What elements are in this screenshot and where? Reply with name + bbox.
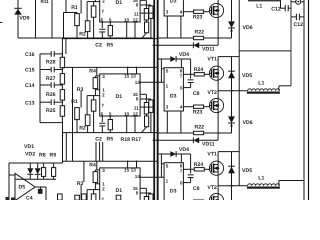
resistor box C <box>91 100 96 111</box>
wire: VD4 to D3 top pin 8 <box>180 154 182 163</box>
resistor below R8/R9 (clipped) <box>58 194 63 200</box>
svg-text:1: 1 <box>166 178 169 183</box>
svg-text:R22: R22 <box>195 29 205 35</box>
svg-text:R8: R8 <box>39 152 46 158</box>
svg-text:15: 15 <box>124 74 130 79</box>
diode VD6 <box>231 0 233 21</box>
resistor R28 <box>60 57 64 68</box>
svg-text:R26: R26 <box>46 92 56 98</box>
svg-text:13: 13 <box>131 168 137 173</box>
diode VD1 <box>29 163 31 168</box>
wire: pin16 to R18 <box>140 93 146 95</box>
wire: VT2 source down <box>217 113 219 134</box>
svg-text:C12: C12 <box>294 22 304 28</box>
wire vertical x=52 <box>51 0 53 38</box>
svg-text:6: 6 <box>180 86 183 91</box>
svg-text:7: 7 <box>101 197 104 200</box>
svg-text:C15: C15 <box>25 68 35 74</box>
resistor box C <box>91 194 96 205</box>
svg-text:D1: D1 <box>116 188 123 194</box>
wire: VD4 to C8 <box>190 59 192 79</box>
wire: R4 to pin 3 <box>94 76 96 78</box>
svg-text:D3: D3 <box>170 189 177 195</box>
svg-text:D3: D3 <box>170 94 177 100</box>
svg-text:VD6: VD6 <box>243 25 253 31</box>
diode VD4 (channel 2) <box>157 58 170 60</box>
svg-text:D1: D1 <box>116 0 123 6</box>
resistor R1 (box A) <box>75 14 80 26</box>
svg-text:VD9: VD9 <box>19 15 29 21</box>
wire: drain top horizontal <box>218 56 239 58</box>
wire: R3 drop <box>80 185 82 202</box>
inductor L1 <box>248 184 280 186</box>
resistor R27 <box>60 74 64 85</box>
wire: ch2 coil output step <box>278 86 280 91</box>
svg-text:R3: R3 <box>77 87 84 93</box>
wire: pin12 to bus <box>134 116 136 133</box>
wire: VT1 source / VT2 drain node <box>217 80 219 98</box>
svg-text:15: 15 <box>124 168 130 173</box>
transistor VT2 <box>209 98 223 112</box>
resistor R4 <box>93 78 98 89</box>
svg-text:R28: R28 <box>46 60 56 66</box>
wire: opamp output <box>35 186 46 188</box>
inductor L1 <box>248 89 280 91</box>
wire: x=99.6 drop <box>99 142 101 161</box>
svg-text:R22: R22 <box>195 124 205 130</box>
svg-text:R25: R25 <box>46 108 56 114</box>
diode VD4 (channel 3) <box>157 153 170 155</box>
wire: VT2 source down <box>217 208 219 229</box>
svg-text:C8: C8 <box>193 0 200 2</box>
svg-text:3: 3 <box>166 199 169 200</box>
resistor R18 <box>144 9 148 21</box>
wire: pin11 stub <box>140 12 153 14</box>
wire: ladder left bus x=40 <box>39 54 41 123</box>
svg-text:3: 3 <box>166 9 169 14</box>
resistor R18 <box>144 103 148 115</box>
svg-text:13: 13 <box>131 74 137 79</box>
svg-text:C2: C2 <box>95 43 102 49</box>
resistor R25 <box>60 106 64 117</box>
IC D1 box (channel 1) <box>100 0 140 22</box>
wire: x=102.7 drop <box>102 142 104 161</box>
wire: VT1 source / VT2 drain node <box>217 0 219 4</box>
svg-text:VD11: VD11 <box>202 47 215 53</box>
capacitor C8 <box>188 174 194 176</box>
wire: thick vertical bus line A x=152.6 <box>153 0 155 200</box>
wire: channel bus <box>62 38 156 40</box>
svg-text:D1: D1 <box>116 94 123 100</box>
svg-text:9: 9 <box>136 191 139 196</box>
svg-text:R9: R9 <box>50 152 57 158</box>
wire: ch3 coil output step <box>278 181 280 186</box>
IC D3 box (channel 3) <box>164 163 183 206</box>
corner blobs (clipped symbols) <box>6 197 10 200</box>
inductor core bar (clipped top) <box>248 0 280 1</box>
svg-text:VT1: VT1 <box>207 151 217 157</box>
svg-text:R24: R24 <box>194 162 204 168</box>
resistor box C <box>91 6 96 17</box>
wire vertical x=35.5 <box>35 0 37 38</box>
wire: pin3 to bus <box>166 206 168 228</box>
svg-text:6: 6 <box>101 17 104 22</box>
svg-text:7: 7 <box>180 73 183 78</box>
IC D1 box (channel 3) <box>100 168 140 210</box>
svg-text:C16: C16 <box>25 52 35 58</box>
svg-text:L1: L1 <box>258 80 264 86</box>
resistor R24 <box>183 168 194 170</box>
diode VD9 <box>17 0 19 38</box>
wire: pin4 to bus <box>180 16 182 38</box>
resistor R23 <box>183 201 193 203</box>
op-amp D5 <box>15 173 35 200</box>
capacitor C12 (upper) <box>280 0 282 8</box>
svg-text:C8: C8 <box>193 91 200 97</box>
svg-text:R4: R4 <box>89 163 96 169</box>
IC D1 box (channel 2) <box>100 74 140 116</box>
wire: top taps to control line <box>127 161 129 168</box>
wire: y=67.4 long horizontal (C15 node to bus) <box>62 66 156 68</box>
capacitor C16 <box>40 53 51 55</box>
wire: feedback box left <box>8 163 10 198</box>
wire: loop left vertical x=239.2 <box>238 0 240 186</box>
wire: pin12 to bus <box>134 210 136 227</box>
IC D3 box (channel 2) <box>164 68 183 111</box>
wire: bus to ladder chain top <box>61 38 63 57</box>
wire vertical x=66.3 y132.6-161.3 <box>65 133 67 162</box>
wire vertical x=72.5 y65.6-161.3 <box>72 67 74 161</box>
svg-text:VD5: VD5 <box>242 73 252 79</box>
capacitor C13 <box>40 101 51 103</box>
wire: ladder resistor chain x=62.4 <box>61 54 63 123</box>
svg-text:1: 1 <box>166 83 169 88</box>
svg-text:10: 10 <box>124 111 130 116</box>
resistor R22 <box>194 226 204 229</box>
svg-text:R23: R23 <box>193 110 203 116</box>
wire: horizontal bus y=38 (channel 1) <box>18 37 153 39</box>
svg-text:3: 3 <box>102 74 105 79</box>
wire: R22 bus line <box>157 227 194 229</box>
svg-text:C13: C13 <box>25 100 35 106</box>
wire: node to inductor <box>218 185 248 187</box>
wire: bus drop x=65.9 <box>65 38 67 54</box>
svg-text:VD1: VD1 <box>24 144 34 150</box>
svg-text:VT2: VT2 <box>207 0 217 1</box>
resistor R3 (channel 3) <box>82 194 87 200</box>
transistor VT2 <box>209 3 223 17</box>
capacitor C14 <box>40 84 51 86</box>
resistor below R18 <box>146 208 148 210</box>
wire vertical x=62.5 y122.6-163 <box>62 123 64 163</box>
diode VD5 <box>231 57 233 91</box>
wire: pin9 to R17 <box>140 98 151 100</box>
svg-text:R4: R4 <box>89 69 96 75</box>
wire: pin11 stub <box>140 106 153 108</box>
IC D3 box (channel 1) <box>164 0 183 16</box>
wire: VT1 source / VT2 drain node <box>217 175 219 193</box>
resistor R2 (box B) <box>85 21 90 32</box>
svg-text:R2: R2 <box>79 32 86 38</box>
wire: D1 pin14 to D3 pin1 <box>140 81 164 83</box>
wire: channel bus <box>62 132 156 134</box>
svg-text:2: 2 <box>102 187 105 192</box>
resistor R22 <box>194 36 204 39</box>
svg-text:R23: R23 <box>193 15 203 21</box>
diode VD11 <box>153 139 194 141</box>
wire: pin3 to bus <box>166 111 168 133</box>
resistor R23 <box>183 11 193 13</box>
wire: node to inductor <box>218 90 248 92</box>
wire: R4 bottom to pin2 line <box>94 0 96 2</box>
wire: pin3 to bus <box>166 16 168 38</box>
wire: VD4 node down left side <box>160 59 162 82</box>
svg-text:VD4: VD4 <box>179 52 189 58</box>
svg-text:VD11: VD11 <box>202 142 215 148</box>
wire: top taps to control line <box>127 67 129 74</box>
svg-text:11: 11 <box>134 12 139 17</box>
diode VD11 <box>153 44 194 46</box>
resistor R22 <box>194 131 204 134</box>
diode VD6 <box>231 186 233 212</box>
wire: tick at left edge y=22.4 <box>0 21 2 23</box>
wire: pin 2 lead <box>87 189 100 191</box>
svg-text:9: 9 <box>136 97 139 102</box>
resistor R5 <box>109 116 111 120</box>
svg-text:VD4: VD4 <box>179 147 189 153</box>
capacitor C12 (lower) <box>291 16 296 18</box>
wire: pin 2 lead <box>87 1 100 3</box>
wire: D1 pin14 to D3 pin1 <box>140 176 164 178</box>
wire: pin16 to R18 <box>140 187 146 189</box>
svg-text:VT1: VT1 <box>207 56 217 62</box>
wire: pin10 to bus <box>126 22 128 39</box>
wire: VD4 to C8 <box>190 154 192 174</box>
svg-text:11: 11 <box>134 106 139 111</box>
svg-text:5: 5 <box>166 164 169 169</box>
resistor R5 <box>109 22 111 26</box>
wire: pin16 to R18 <box>140 0 146 1</box>
svg-text:R1: R1 <box>71 99 78 105</box>
svg-text:R1: R1 <box>71 5 78 11</box>
svg-text:9: 9 <box>136 3 139 8</box>
wire: right rail x=304 <box>303 0 305 200</box>
svg-text:2: 2 <box>102 93 105 98</box>
resistor R17 <box>149 6 153 18</box>
resistor R2 (box B) <box>85 115 90 126</box>
capacitor C2 <box>101 210 103 216</box>
svg-text:C8: C8 <box>193 186 200 192</box>
wire: R3 drop <box>80 91 82 108</box>
svg-text:7: 7 <box>180 168 183 173</box>
svg-text:C14: C14 <box>25 83 35 89</box>
resistor below R18 <box>146 114 148 116</box>
wire: drain top horizontal <box>218 151 239 153</box>
resistor R4 <box>93 172 98 183</box>
resistor R17 <box>149 194 153 206</box>
svg-text:6: 6 <box>101 111 104 116</box>
wire: output rail x=291 (top) <box>290 0 292 86</box>
svg-text:L1: L1 <box>258 175 264 181</box>
wire: VT2 source down <box>217 18 219 39</box>
svg-text:VD2: VD2 <box>25 152 35 158</box>
svg-text:5: 5 <box>109 17 112 22</box>
wire: diagonal to bus <box>142 33 147 39</box>
transistor VT1 <box>209 66 223 80</box>
wire: pin3 net to control line <box>96 67 98 76</box>
transistor VT2 <box>209 193 223 207</box>
resistor R23 <box>183 106 193 108</box>
svg-text:5: 5 <box>109 111 112 116</box>
svg-text:R27: R27 <box>46 76 56 82</box>
svg-text:10: 10 <box>124 17 130 22</box>
svg-text:R11: R11 <box>41 0 50 4</box>
svg-text:12: 12 <box>133 111 139 116</box>
capacitor C4 <box>40 187 42 189</box>
wire: channel bus <box>62 226 156 228</box>
svg-text:R18 R17: R18 R17 <box>121 137 142 143</box>
wire: VD4 to D3 top pin 8 <box>180 59 182 68</box>
wire: VD4 node down left side <box>160 154 162 177</box>
wire: pin12 to bus <box>134 22 136 39</box>
wire: R3 drop <box>80 0 82 14</box>
diode VD6 <box>231 91 233 117</box>
resistor R5 <box>109 210 111 214</box>
svg-text:C12: C12 <box>271 7 281 13</box>
wire: pin9 to R17 <box>140 192 151 194</box>
svg-text:4: 4 <box>180 199 183 200</box>
wire: pin9 to R17 <box>140 4 151 6</box>
wire: diagonal to bus <box>142 127 147 133</box>
svg-text:3: 3 <box>166 104 169 109</box>
resistor R2 (box B) <box>85 209 90 220</box>
capacitor C2 <box>101 116 103 122</box>
svg-text:L1: L1 <box>256 4 262 10</box>
wire: R4 bottom to pin2 line <box>94 183 96 190</box>
svg-text:12: 12 <box>133 17 139 22</box>
capacitor C15 <box>40 69 51 71</box>
svg-text:VD6: VD6 <box>243 120 253 126</box>
resistor R17 <box>149 100 153 112</box>
transistor VT1 <box>209 161 223 175</box>
svg-text:6: 6 <box>180 181 183 186</box>
svg-text:14: 14 <box>135 80 141 85</box>
svg-text:C4: C4 <box>26 196 33 201</box>
resistor clipped x=77 <box>75 195 80 200</box>
wire: pin11 stub <box>140 200 153 202</box>
svg-text:D5: D5 <box>19 184 26 190</box>
wire: pin10 to bus <box>126 116 128 133</box>
wire: diode bottom rail y=179.3 <box>15 178 56 180</box>
wire: pin3 net to control line <box>96 161 98 170</box>
resistor R1 (box A) <box>75 202 80 214</box>
resistor R1 (box A) <box>75 108 80 120</box>
resistor R18 <box>144 197 148 209</box>
wire: R3 ch3 hang <box>83 161 85 182</box>
capacitor C8 <box>188 79 194 81</box>
svg-text:D3: D3 <box>170 0 177 5</box>
svg-text:2: 2 <box>102 0 105 4</box>
connector circle XS1 <box>296 0 301 4</box>
svg-text:4: 4 <box>180 104 183 109</box>
wire: thick vertical bus line B x=156.8 <box>157 0 159 200</box>
svg-text:14: 14 <box>135 174 141 179</box>
svg-text:VD5: VD5 <box>242 168 252 174</box>
wire: R22 bus line <box>157 132 194 134</box>
wire: diagonal to bus <box>142 221 147 227</box>
wire: x=96 drop <box>95 142 97 161</box>
diode VD5 <box>231 152 233 186</box>
svg-text:3: 3 <box>102 168 105 173</box>
svg-text:R3: R3 <box>77 181 84 187</box>
wire: control line y=161.3 (channel 3) <box>63 160 157 162</box>
svg-text:R24: R24 <box>194 67 204 73</box>
svg-text:5: 5 <box>166 69 169 74</box>
svg-text:4: 4 <box>180 9 183 14</box>
resistor below R18 <box>146 20 148 22</box>
svg-text:R5: R5 <box>107 137 114 143</box>
diode VD2 <box>37 163 39 168</box>
resistor R9 <box>53 163 55 168</box>
resistor R26 <box>60 90 64 101</box>
capacitor C2 <box>101 22 103 28</box>
wire vertical x=66 with jog <box>65 0 67 13</box>
svg-text:7: 7 <box>101 9 104 14</box>
wire: opamp top rail y=163 <box>9 162 63 164</box>
wire: R4 to pin 3 <box>94 170 96 172</box>
resistor R8 <box>43 163 45 168</box>
diode VD11 <box>153 234 194 236</box>
wire: R4 bottom to pin2 line <box>94 89 96 96</box>
wire: pin 2 lead <box>87 95 100 97</box>
wire: pin4 to bus <box>180 206 182 228</box>
wire: VT1 drain up <box>217 152 219 162</box>
resistor clipped x=118.5 <box>116 195 121 200</box>
svg-text:7: 7 <box>101 103 104 108</box>
svg-text:C2: C2 <box>95 137 102 143</box>
svg-text:R5: R5 <box>107 43 114 49</box>
wire: ch1 loop bottom y=50.9 <box>239 50 291 52</box>
resistor R24 <box>183 73 194 75</box>
wire: right rail x=308.5 <box>308 0 310 200</box>
wire: pin 1 lead <box>95 89 99 91</box>
wire: pin4 to bus <box>180 111 182 133</box>
svg-text:VT2: VT2 <box>207 90 217 96</box>
wire: pin10 to bus <box>126 210 128 227</box>
wire: pin 1 lead <box>95 183 99 185</box>
wire: R22 bus line <box>157 37 194 39</box>
wire: VT1 drain up <box>217 57 219 67</box>
svg-text:R2: R2 <box>79 126 86 132</box>
svg-text:VT2: VT2 <box>207 185 217 191</box>
